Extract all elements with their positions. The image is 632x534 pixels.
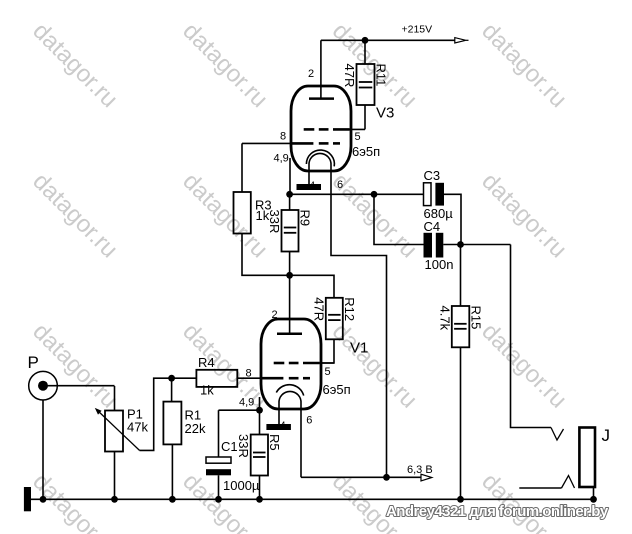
svg-text:datagor.ru: datagor.ru [177, 318, 273, 414]
svg-text:datagor.ru: datagor.ru [177, 18, 273, 114]
node R11 top junction [362, 37, 369, 44]
node heater rail junction [383, 474, 390, 481]
wire P1 wiper to R4 [140, 378, 172, 450]
node bus C1 [215, 496, 222, 503]
wire V1 anode lead [289, 275, 291, 333]
svg-text:6,3 В: 6,3 В [407, 464, 433, 476]
svg-text:V1: V1 [350, 340, 368, 357]
wire V3 pin6 heater [331, 171, 387, 477]
svg-text:4.7k: 4.7k [437, 306, 452, 331]
tube V1 [261, 319, 321, 424]
capacitor C4 [374, 194, 511, 257]
wire ground bus [31, 498, 594, 500]
svg-text:1000µ: 1000µ [223, 478, 260, 493]
node R1 top junction [168, 375, 175, 382]
jack switch contact V [551, 428, 564, 441]
svg-text:2: 2 [272, 309, 278, 321]
svg-text:5: 5 [355, 131, 361, 143]
svg-text:8: 8 [280, 131, 286, 143]
svg-text:datagor.ru: datagor.ru [327, 318, 423, 414]
svg-text:4,9: 4,9 [239, 397, 254, 409]
svg-text:R9: R9 [298, 210, 313, 227]
wire V3 cathode 4,9 lead [289, 158, 291, 194]
jack J body [579, 428, 595, 500]
node V1 cathode junction [256, 407, 263, 414]
wire cathode node to C3 [290, 193, 424, 195]
wire V1 pin5 inside [319, 362, 335, 364]
resistor R4 [172, 370, 263, 387]
svg-text:Andrey4321 для forum.onliner.b: Andrey4321 для forum.onliner.by [386, 503, 609, 520]
capacitor C1 [206, 410, 231, 499]
cathode bar V3 pin4 [297, 184, 322, 190]
wire cathode node to C1 [219, 409, 260, 411]
node V1 anode junction [286, 272, 293, 279]
svg-text:R5: R5 [267, 434, 282, 451]
resistor R11 [357, 40, 375, 129]
svg-text:47R: 47R [342, 64, 357, 88]
svg-text:4,9: 4,9 [274, 153, 289, 165]
svg-text:C4: C4 [424, 219, 441, 234]
svg-text:6: 6 [337, 179, 343, 191]
svg-text:47k: 47k [127, 420, 148, 435]
resistor R15 [452, 245, 470, 500]
jack tip contact wire [519, 487, 561, 489]
node bus R5 [256, 496, 263, 503]
resistor R12 [321, 298, 343, 363]
node bus R15 [457, 496, 464, 503]
tube V3 [291, 86, 351, 184]
potentiometer P1 [95, 386, 140, 499]
node bus jack [590, 496, 597, 503]
wire V1 cathode 4,9 lead [259, 397, 261, 435]
6,3V arrow [421, 474, 432, 481]
resistor R9 [282, 194, 299, 275]
svg-text:datagor.ru: datagor.ru [476, 468, 572, 534]
svg-text:J: J [602, 426, 611, 445]
wire V1 pin6 heater [300, 409, 302, 477]
resistor R3 [234, 143, 290, 275]
svg-text:6: 6 [306, 415, 312, 427]
node bus P1 [111, 496, 118, 503]
wire V3 pin8 [242, 142, 293, 144]
resistor R5 [251, 435, 268, 500]
+215V arrow [455, 38, 469, 43]
svg-text:datagor.ru: datagor.ru [27, 18, 123, 114]
resistor R1 [163, 378, 181, 499]
wire anode node to R12 [290, 275, 334, 298]
svg-text:R4: R4 [198, 355, 215, 370]
node bus P [40, 496, 47, 503]
svg-text:C1: C1 [221, 439, 238, 454]
svg-text:P: P [28, 353, 39, 372]
connector P [29, 371, 58, 499]
svg-text:6э5п: 6э5п [323, 382, 351, 397]
svg-text:R11: R11 [374, 64, 389, 87]
node bus R1 [169, 496, 176, 503]
svg-text:datagor.ru: datagor.ru [476, 318, 572, 414]
capacitor C3 [424, 183, 462, 245]
ground chassis bar [24, 487, 31, 511]
jack tip contact bend [562, 476, 575, 489]
svg-text:2: 2 [308, 68, 314, 80]
node cathode junction V3 [286, 191, 293, 198]
svg-text:33R: 33R [267, 210, 282, 234]
svg-text:22k: 22k [185, 421, 206, 436]
wire V3 pin5 to R11 [348, 128, 365, 130]
wire heater rail to 6,3V arrow [301, 476, 421, 478]
svg-text:datagor.ru: datagor.ru [476, 18, 572, 114]
svg-text:R12: R12 [342, 297, 357, 321]
wire +215V rail [321, 39, 455, 41]
wire to jack switch contact [511, 245, 552, 428]
svg-text:+215V: +215V [402, 24, 433, 36]
svg-text:datagor.ru: datagor.ru [476, 168, 572, 264]
wire V3 anode lead [320, 40, 322, 98]
svg-text:5: 5 [325, 366, 331, 378]
svg-text:datagor.ru: datagor.ru [27, 168, 123, 264]
node C3 branch junction [371, 191, 378, 198]
node R15 top junction [457, 241, 464, 248]
wire P to P1 [43, 385, 115, 387]
svg-text:C3: C3 [424, 168, 441, 183]
svg-text:6э5п: 6э5п [352, 144, 380, 159]
svg-text:V3: V3 [376, 105, 394, 122]
cathode bar V1 pin4 [266, 424, 291, 430]
svg-text:1k: 1k [200, 383, 214, 398]
svg-text:8: 8 [246, 368, 252, 380]
svg-text:33R: 33R [236, 434, 251, 458]
svg-text:100n: 100n [425, 257, 454, 272]
svg-text:R15: R15 [468, 306, 483, 330]
svg-text:47R: 47R [311, 297, 326, 321]
